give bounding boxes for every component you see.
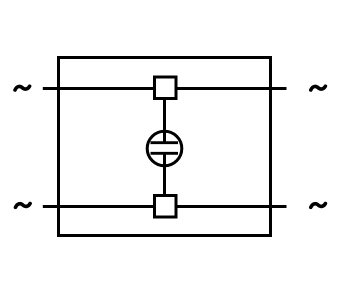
gas discharge tube U1 top electrode — [151, 141, 179, 144]
gas discharge tube U1 envelope — [147, 131, 182, 166]
wire line 1 (top conductor) — [43, 87, 287, 90]
AC marker ~ top left — [15, 86, 30, 90]
wire line 2 (bottom conductor) — [43, 205, 287, 208]
AC marker ~ bottom right — [311, 204, 326, 208]
AC marker ~ bottom left — [16, 204, 31, 208]
wire lead from arrester to bottom terminal — [163, 152, 166, 207]
wire lead from top terminal to arrester — [163, 88, 166, 144]
terminal X1 (top square) — [155, 77, 177, 99]
gas discharge tube U1 bottom electrode — [151, 152, 179, 155]
terminal X2 (bottom square) — [155, 196, 177, 218]
enclosure box — [59, 58, 271, 236]
AC marker ~ top right — [311, 86, 326, 90]
